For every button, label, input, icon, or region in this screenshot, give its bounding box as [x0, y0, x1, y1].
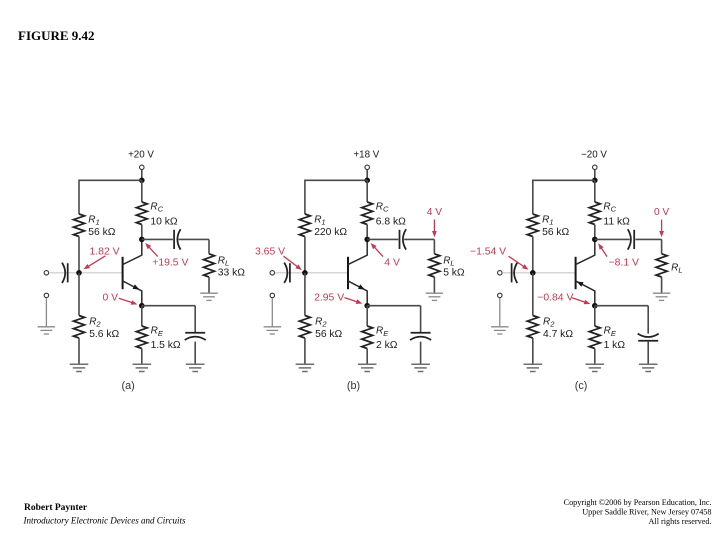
node top junction (b)	[364, 178, 370, 184]
wire RL top lead (c)	[661, 239, 663, 253]
wire collector node to output cap (c)	[595, 238, 630, 240]
wire R1 top lead (a)	[78, 180, 80, 215]
svg-text:5.6 kΩ: 5.6 kΩ	[89, 329, 119, 340]
ground R2 (c)	[524, 364, 543, 371]
wire input signal line (a)	[49, 272, 123, 274]
supply terminal (c)	[593, 165, 598, 170]
svg-text:56 kΩ: 56 kΩ	[315, 329, 342, 340]
arrow to emitter node (a)	[119, 298, 133, 303]
supply terminal (a)	[140, 165, 145, 170]
wire bypass cap top lead (b)	[420, 306, 422, 333]
svg-text:Copyright ©2006 by Pearson Edu: Copyright ©2006 by Pearson Education, In…	[564, 498, 712, 507]
svg-text:56 kΩ: 56 kΩ	[88, 227, 115, 238]
wire RC bottom to collector node (c)	[594, 225, 596, 240]
svg-text:1 kΩ: 1 kΩ	[604, 340, 626, 351]
wire RE top lead (a)	[141, 306, 143, 326]
capacitor emitter bypass (b)	[411, 332, 431, 334]
wire output cap to RL (a)	[179, 238, 209, 240]
resistor R1 56 kΩ (a)	[74, 214, 85, 237]
resistor RL (c)	[656, 254, 667, 277]
ground input (c)	[491, 327, 509, 334]
svg-text:(b): (b)	[347, 380, 360, 392]
resistor R1 56 kΩ (c)	[527, 214, 538, 237]
wire RC bottom to collector node (b)	[366, 225, 368, 240]
svg-text:33 kΩ: 33 kΩ	[218, 267, 245, 278]
svg-text:4 V: 4 V	[384, 258, 400, 269]
wire top rail to R1 branch (c)	[533, 179, 595, 181]
capacitor emitter bypass (a)	[185, 332, 205, 334]
svg-text:0 V: 0 V	[654, 207, 669, 218]
ground RE (c)	[586, 364, 605, 371]
wire RE bottom lead (b)	[366, 349, 368, 365]
node base (a)	[76, 270, 82, 276]
wire RE bottom lead (a)	[141, 349, 143, 365]
svg-text:220 kΩ: 220 kΩ	[314, 227, 347, 238]
wire R2 top lead (c)	[532, 273, 534, 316]
wire RL top lead (b)	[433, 239, 435, 253]
wire top rail to R1 branch (b)	[305, 179, 367, 181]
input ground terminal (c)	[498, 293, 503, 298]
wire RC top lead (a)	[141, 180, 143, 202]
resistor RC 11 kΩ (c)	[589, 202, 600, 225]
wire bypass cap bottom lead (b)	[420, 342, 422, 365]
input ground terminal (a)	[44, 293, 49, 298]
transistor emitter lead (b)	[348, 281, 367, 306]
svg-text:5 kΩ: 5 kΩ	[443, 267, 465, 278]
wire RE top lead (b)	[366, 306, 368, 326]
svg-text:2.95 V: 2.95 V	[314, 292, 344, 303]
wire output cap to RL (b)	[404, 238, 434, 240]
arrow to base node (a)	[88, 256, 106, 267]
transistor collector lead (a)	[123, 239, 142, 264]
capacitor output coupling (b)	[399, 230, 401, 249]
svg-text:FIGURE 9.42: FIGURE 9.42	[18, 28, 95, 43]
svg-text:Upper Saddle River, New Jersey: Upper Saddle River, New Jersey 07458	[582, 508, 711, 517]
ground input (b)	[264, 327, 282, 334]
wire input ground stem (c)	[499, 298, 501, 327]
arrow to output node (c)	[661, 220, 663, 233]
arrow to base node (b)	[284, 256, 298, 267]
wire input ground stem (a)	[45, 298, 47, 327]
svg-text:4 V: 4 V	[427, 207, 442, 218]
svg-text:−20 V: −20 V	[581, 149, 607, 160]
transistor emitter arrow (NPN, outward) (a)	[133, 284, 140, 289]
supply terminal (b)	[365, 165, 370, 170]
capacitor input coupling (c)	[511, 263, 513, 282]
svg-text:(a): (a)	[121, 380, 134, 392]
capacitor input coupling (a)	[67, 263, 69, 282]
capacitor output coupling (c)	[633, 230, 635, 249]
wire RC bottom to collector node (a)	[141, 225, 143, 240]
wire emitter to bypass branch (b)	[367, 305, 420, 307]
ground RE (b)	[358, 364, 377, 371]
resistor RC 10 kΩ (a)	[136, 202, 147, 225]
resistor R2 4.7 kΩ (c)	[527, 316, 538, 339]
wire RC top lead (b)	[366, 180, 368, 202]
wire supply terminal to top node (a)	[141, 170, 143, 181]
node emitter (c)	[592, 303, 598, 309]
node top junction (a)	[139, 178, 145, 184]
svg-text:Introductory Electronic Device: Introductory Electronic Devices and Circ…	[23, 515, 186, 525]
wire R2 bottom lead (b)	[304, 338, 306, 364]
wire bypass cap bottom lead (a)	[194, 342, 196, 365]
svg-text:+20 V: +20 V	[128, 149, 154, 160]
svg-text:(c): (c)	[575, 380, 588, 392]
resistor RL 33 kΩ (a)	[204, 254, 215, 277]
transistor emitter arrow (NPN, outward) (b)	[358, 284, 365, 289]
wire supply terminal to top node (c)	[594, 170, 596, 181]
wire RL top lead (a)	[208, 239, 210, 253]
node emitter (a)	[139, 303, 145, 309]
wire R1 bottom to base node (b)	[304, 237, 306, 273]
wire input ground stem (b)	[271, 298, 273, 327]
wire output cap to RL (c)	[635, 238, 661, 240]
capacitor output coupling (a)	[173, 230, 175, 249]
node top junction (c)	[592, 178, 598, 184]
capacitor emitter bypass (c)	[638, 340, 658, 342]
node collector (a)	[139, 237, 145, 243]
svg-text:3.65 V: 3.65 V	[255, 247, 285, 258]
ground RL (a)	[200, 293, 218, 300]
node collector (c)	[592, 237, 598, 243]
transistor emitter lead (a)	[123, 281, 142, 306]
transistor Q NPN base bar (b)	[347, 257, 349, 289]
svg-text:+18 V: +18 V	[353, 149, 379, 160]
ground bypass cap (c)	[639, 364, 658, 371]
ground RL (c)	[653, 293, 671, 300]
wire RL bottom lead (a)	[208, 277, 210, 293]
resistor RC 6.8 kΩ (b)	[362, 202, 373, 225]
node base (c)	[530, 270, 536, 276]
arrow to base node (c)	[509, 256, 525, 267]
svg-text:6.8 kΩ: 6.8 kΩ	[376, 217, 406, 228]
transistor Q PNP base bar (c)	[575, 257, 577, 289]
resistor RE 1.5 kΩ (a)	[136, 326, 147, 349]
svg-text:−1.54 V: −1.54 V	[470, 247, 506, 258]
wire RE top lead (c)	[594, 306, 596, 326]
transistor collector lead (c)	[576, 239, 595, 264]
svg-text:0 V: 0 V	[103, 292, 119, 303]
svg-text:+19.5 V: +19.5 V	[152, 258, 188, 269]
wire RL bottom lead (c)	[661, 277, 663, 293]
wire emitter to bypass branch (a)	[142, 305, 195, 307]
wire bypass cap top lead (c)	[647, 306, 649, 334]
wire R1 bottom to base node (c)	[532, 237, 534, 273]
wire emitter to bypass branch (c)	[595, 305, 648, 307]
svg-text:10 kΩ: 10 kΩ	[150, 217, 177, 228]
input terminal (a)	[44, 271, 49, 276]
wire collector node to output cap (a)	[142, 238, 173, 240]
resistor R2 56 kΩ (b)	[299, 316, 310, 339]
transistor emitter arrow (PNP, into base) (c)	[577, 282, 584, 287]
wire bypass cap top lead (a)	[194, 306, 196, 333]
resistor R1 220 kΩ (b)	[299, 214, 310, 237]
svg-text:All rights reserved.: All rights reserved.	[649, 517, 712, 526]
resistor R2 5.6 kΩ (a)	[74, 316, 85, 339]
resistor RL 5 kΩ (b)	[429, 254, 440, 277]
wire RE bottom lead (c)	[594, 349, 596, 365]
svg-text:56 kΩ: 56 kΩ	[542, 227, 569, 238]
arrow to collector node (a)	[149, 247, 158, 257]
wire R1 top lead (c)	[532, 180, 534, 215]
wire R2 bottom lead (a)	[78, 338, 80, 364]
ground bypass cap (b)	[411, 364, 430, 371]
wire bypass cap bottom lead (c)	[647, 342, 649, 365]
input terminal (c)	[498, 271, 503, 276]
node base (b)	[302, 270, 308, 276]
transistor emitter lead (c)	[576, 281, 595, 306]
arrow to emitter node (c)	[572, 298, 586, 303]
arrow to output node (b)	[433, 220, 435, 233]
arrow to collector node (b)	[374, 247, 383, 257]
svg-text:Robert Paynter: Robert Paynter	[24, 503, 88, 513]
svg-text:1.5 kΩ: 1.5 kΩ	[151, 340, 181, 351]
wire R2 top lead (a)	[78, 273, 80, 316]
svg-text:−8.1 V: −8.1 V	[609, 258, 639, 269]
wire R1 bottom to base node (a)	[78, 237, 80, 273]
resistor RE 2 kΩ (b)	[362, 326, 373, 349]
wire RL bottom lead (b)	[433, 277, 435, 293]
arrow to collector node (c)	[601, 247, 607, 256]
wire R2 bottom lead (c)	[532, 338, 534, 364]
wire RC top lead (c)	[594, 180, 596, 202]
transistor collector lead (b)	[348, 239, 367, 264]
svg-text:4.7 kΩ: 4.7 kΩ	[543, 329, 573, 340]
wire input signal line (c)	[502, 272, 575, 274]
capacitor input coupling (b)	[289, 263, 291, 282]
svg-text:11 kΩ: 11 kΩ	[603, 217, 630, 228]
ground R2 (b)	[296, 364, 315, 371]
wire collector node to output cap (b)	[367, 238, 398, 240]
ground R2 (a)	[70, 364, 89, 371]
ground RE (a)	[133, 364, 152, 371]
node collector (b)	[364, 237, 370, 243]
svg-text:−0.84 V: −0.84 V	[537, 292, 573, 303]
wire input signal line (b)	[275, 272, 348, 274]
resistor RE 1 kΩ (c)	[589, 326, 600, 349]
ground bypass cap (a)	[186, 364, 205, 371]
svg-text:2 kΩ: 2 kΩ	[376, 340, 398, 351]
wire R1 top lead (b)	[304, 180, 306, 215]
wire top rail to R1 branch (a)	[79, 179, 142, 181]
input terminal (b)	[270, 271, 275, 276]
ground RL (b)	[426, 293, 444, 300]
node emitter (b)	[364, 303, 370, 309]
transistor Q NPN base bar (a)	[122, 257, 124, 289]
wire supply terminal to top node (b)	[366, 170, 368, 181]
input ground terminal (b)	[270, 293, 275, 298]
arrow to emitter node (b)	[345, 298, 358, 302]
ground input (a)	[38, 327, 56, 334]
wire R2 top lead (b)	[304, 273, 306, 316]
